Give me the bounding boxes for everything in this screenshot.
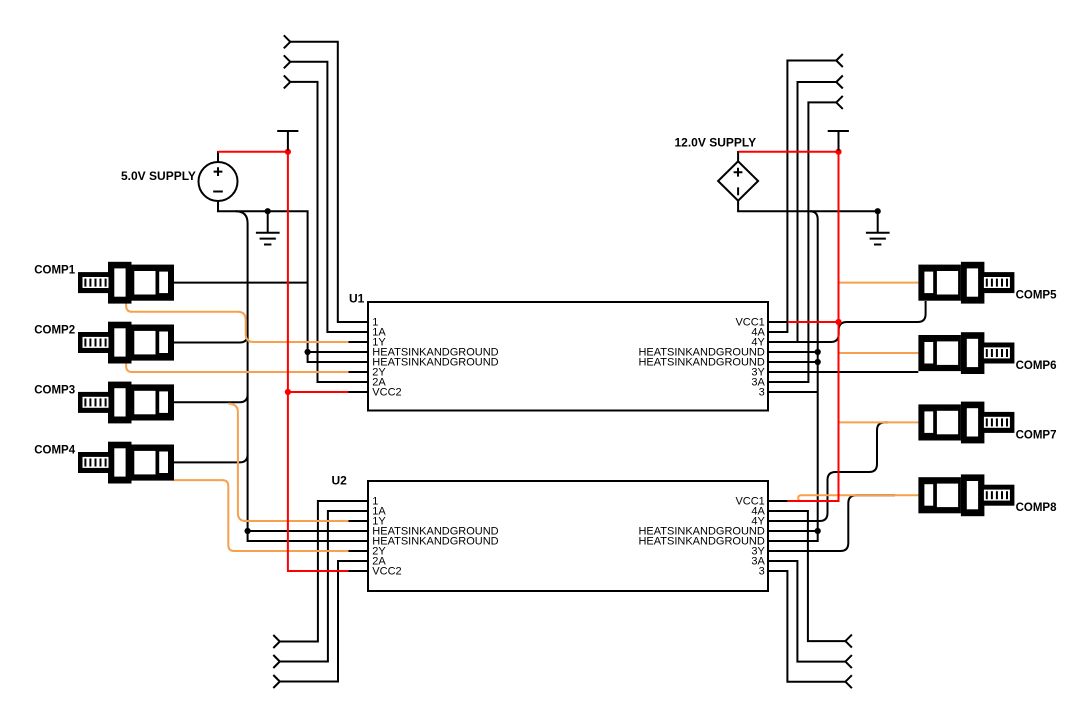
pin stub U2 1Y [349,520,369,522]
junction U1 right heatsink node 2 [815,359,821,365]
ground symbol left [256,211,280,244]
wire U1 pin 2A to top-left terminal 3 [290,82,368,382]
ground symbol right [866,211,890,244]
svg-text:COMP7: COMP7 [1016,429,1057,441]
pin stub U2 VCC2 [349,570,369,572]
svg-text:HEATSINKANDGROUND: HEATSINKANDGROUND [638,357,764,369]
wire connector COMP7 center pin [838,421,918,423]
wire U2 pin 3Y to connector COMP8 center [768,495,895,551]
svg-text:COMP1: COMP1 [34,265,75,277]
connector COMP3 [78,382,174,424]
pin stub U1 VCC1 [768,321,788,323]
wire U1 pin 3A to top-right terminal 3 [768,102,836,382]
connector COMP4 [78,442,174,484]
wire connector COMP5 center pin [838,282,918,284]
wire left VCC rail down to U2 VCC2 [288,152,349,571]
wire U2 pin 4Y to connector COMP7 shell [768,422,888,521]
svg-text:VCC2: VCC2 [372,387,401,399]
wire 12V supply minus to right ground node [738,201,878,212]
VCC tee-bar symbol left [277,131,298,151]
pin stub 5V supply plus [217,151,219,162]
wire connector COMP2 shell to U1 pin 2Y [126,359,348,372]
junction U1 VCC1 tap [835,319,841,325]
wire connector COMP3 center pin merging into left column [174,394,248,402]
op-amp IC U1 body [368,302,768,411]
U1 right pin labels [638,317,765,399]
wire U1 HEATSINKANDGROUND pin 1 stub [308,351,368,353]
connector COMP6 [918,332,1014,374]
wire right ground rail arc down right column to U2 [768,211,818,541]
terminal chevron bottom-left 3 [273,675,280,688]
connector COMP2 [78,322,174,364]
junction left VCC tee [285,149,291,155]
svg-text:COMP8: COMP8 [1016,502,1058,514]
pin stub U1 1Y [349,341,369,343]
terminal chevron bottom-right 3 [845,675,852,688]
pin stub 12V supply plus [737,151,739,161]
wire left VCC rail branch to U1 VCC2 [288,391,349,393]
wire U2 pin 3A to bottom-right terminal 2 [768,561,845,662]
voltage source V1 5.0V SUPPLY [199,162,238,201]
svg-text:12.0V SUPPLY: 12.0V SUPPLY [675,136,757,150]
terminal chevron top-right 1 [836,54,843,67]
terminal chevron top-left 3 [284,75,291,88]
svg-text:COMP5: COMP5 [1016,290,1058,302]
junction U1 left heatsink node [305,349,311,355]
terminal chevron bottom-left 2 [273,655,280,668]
junction U1 right heatsink node 1 [815,349,821,355]
wire U1 right HEATSINKANDGROUND pin 2 stub [768,361,818,363]
wire right column to U2 HEATSINKANDGROUND pin 1 [768,530,818,532]
wire connector COMP8 center pin [798,495,918,501]
U2 left pin labels [372,496,498,578]
svg-text:HEATSINKANDGROUND: HEATSINKANDGROUND [372,357,498,369]
IC U2 body [368,481,768,591]
wire right VCC rail branch to U1 VCC1 [788,321,839,323]
svg-text:COMP3: COMP3 [34,384,75,396]
junction right VCC tee [835,149,841,155]
svg-text:COMP6: COMP6 [1016,360,1057,372]
wire connector COMP4 center pin merging into left column [174,454,248,462]
wire connector COMP6 center pin [838,352,918,354]
wire 12V supply plus to right VCC tee [739,151,839,153]
connector COMP7 [918,402,1014,444]
svg-text:COMP2: COMP2 [34,325,75,337]
wire U1 pin 3 to ground column [768,391,818,393]
junction right ground node [875,208,881,214]
svg-text:3: 3 [759,566,765,578]
pin stub U2 VCC1 [768,500,788,502]
wire U2 pin 1A to bottom-left terminal 2 [280,511,368,662]
junction U2 left heatsink node [245,528,251,534]
junction U1 VCC2 tap [285,389,291,395]
connector COMP1 [78,262,174,304]
svg-text:3: 3 [759,387,765,399]
wire connector COMP3 shell to U2 pin 1Y [229,404,349,521]
wire connector COMP4 shell to U2 pin 2Y [174,480,349,551]
terminal chevron bottom-left 1 [273,635,280,648]
svg-text:5.0V SUPPLY: 5.0V SUPPLY [121,169,196,183]
terminal chevron bottom-right 2 [845,655,852,668]
junction U2 right heatsink node [815,528,821,534]
wire left column to U2 HEATSINKANDGROUND pin 2 [248,531,368,541]
wire U2 pin 4A to bottom-right terminal 1 [768,511,845,641]
junction left ground node [265,208,271,214]
svg-text:HEATSINKANDGROUND: HEATSINKANDGROUND [638,536,764,548]
pin stub U1 2Y [349,371,369,373]
wire 5V supply plus to left VCC tee [218,151,288,153]
pin stub U1 VCC2 [349,391,369,393]
wire U1 pin 1A to top-left terminal 2 [290,62,368,332]
svg-text:COMP4: COMP4 [34,445,75,457]
wire connector COMP1 center pin to ground column [174,282,308,284]
terminal chevron top-right 3 [836,96,843,109]
wire U1 pin 4A to top-right terminal 1 [768,61,836,333]
voltage source V2 12.0V SUPPLY [718,161,758,200]
wire 5V supply minus to ground rail and U1 heatsink [218,201,308,352]
wire left column to U2 HEATSINKANDGROUND pin 1 [248,530,368,532]
terminal chevron top-left 1 [284,35,291,48]
U2 right pin labels [638,496,765,578]
terminal chevron top-left 2 [284,55,291,68]
wire U1 pin 4Y to connector COMP5 shell [768,301,926,342]
U1 left pin labels [372,317,498,399]
wire U1 pin 4Y branch to top-right terminal 2 [798,82,837,342]
wire U1 right HEATSINKANDGROUND pin 1 stub [768,351,818,353]
wire U1 HEATSINKANDGROUND pin 2 to junction [308,352,368,362]
wire right VCC rail down to U2 VCC1 [788,152,839,501]
wire connector COMP1 shell to U1 pin 1Y [126,299,348,342]
wire U2 pin 3 to bottom-right terminal 3 [768,571,845,682]
wire U1 pin 3Y to connector COMP6 shell [768,371,918,373]
terminal chevron bottom-right 1 [845,635,852,648]
VCC tee-bar symbol right [828,131,849,151]
pin stub U2 2Y [349,550,369,552]
svg-text:HEATSINKANDGROUND: HEATSINKANDGROUND [372,536,498,548]
wire U2 pin 2A to bottom-left terminal 3 [280,561,368,682]
terminal chevron top-right 2 [836,76,843,89]
wire ground rail branch arc down left column [236,211,248,531]
svg-text:U2: U2 [332,474,348,488]
connector COMP8 [918,474,1014,516]
svg-text:VCC2: VCC2 [372,566,401,578]
wire U1 pin 1 to top-left terminal 1 [290,42,368,322]
svg-text:U1: U1 [349,292,365,306]
connector COMP5 [918,262,1014,304]
wire connector COMP2 center pin merging into left column [174,335,248,343]
wire U2 pin 1 to bottom-left terminal 1 [280,501,368,642]
